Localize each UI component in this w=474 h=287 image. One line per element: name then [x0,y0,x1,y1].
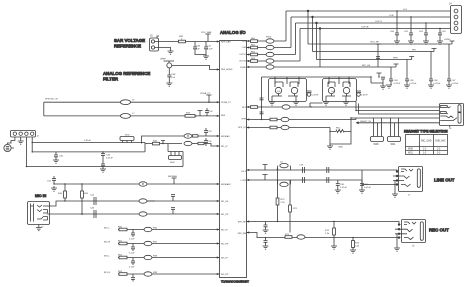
svg-text:IN3_LP: IN3_LP [221,258,229,260]
svg-text:C34: C34 [208,131,213,133]
svg-text:OUT1L: OUT1L [375,21,383,23]
wire REC OUT R [247,233,401,238]
capacitor C27 [193,42,206,55]
capacitor C68 [386,79,401,88]
svg-text:OUT1R: OUT1R [239,61,247,63]
svg-text:MIC_HS: MIC_HS [362,65,371,67]
input row IN3R [104,271,220,282]
wire nest y59.5 [317,57,415,80]
capacitor C70 [307,91,319,97]
microphone symbol MK1 [4,137,15,152]
connector J3 mic jack [28,202,50,229]
svg-text:VREF: VREF [160,59,166,61]
wire jack row3 [359,104,440,115]
resistor R45 vertical [81,184,89,215]
capacitor C60 [390,11,400,44]
ground [168,51,174,54]
jumper W08 [371,118,384,146]
varistor RV1 [330,128,351,149]
wire row VDDA_CT [44,101,220,103]
svg-text:2.2k: 2.2k [355,246,360,248]
svg-text:SPK_LP: SPK_LP [238,127,246,129]
svg-text:C35: C35 [208,141,213,143]
resistor R60 row41 [247,37,287,44]
svg-text:OUT1R: OUT1R [361,27,369,29]
wire SPK row [247,125,331,131]
power flag AVDD [201,31,212,42]
svg-text:FB6: FB6 [153,227,158,229]
svg-text:IN3_RP: IN3_RP [221,274,229,276]
capacitor C33 [205,108,213,116]
wire J5 pin1 to U1 REF pin [160,41,220,43]
svg-text:ANALOG REFERENCE: ANALOG REFERENCE [103,71,150,76]
svg-text:R44: R44 [58,193,63,195]
svg-text:IN2_RP: IN2_RP [221,244,229,246]
wire HSDET [357,121,440,124]
power flag REF [198,111,203,116]
power flag VDD_HP column [370,42,381,68]
ground [394,234,400,251]
ferrite bead L9 [278,180,291,187]
wire VGND row67 [247,65,321,69]
svg-text:C60: C60 [390,31,395,33]
svg-text:LINE OUT: LINE OUT [434,178,455,183]
svg-text:C62: C62 [419,31,424,33]
wire header pin2 gnd [20,137,22,141]
svg-text:W03: W03 [170,162,175,164]
svg-text:R72: R72 [325,230,330,232]
power flag MICBIAS [168,175,178,184]
wire top bundle 1 [286,11,451,41]
capacitor C30 [53,152,64,163]
wire R44 to tip row [64,200,66,202]
svg-text:IN2_R: IN2_R [104,242,111,244]
FET mute box U3 [323,77,357,105]
svg-text:R73: R73 [355,243,360,245]
capacitor C34 [204,128,212,136]
svg-text:MICBIAS: MICBIAS [168,175,178,178]
capacitor C71 [356,91,368,97]
svg-text:2.2k: 2.2k [325,233,330,235]
svg-text:W02: W02 [125,135,130,137]
wire column x261 [260,77,264,120]
input row IN2R [104,240,220,254]
wire SPKVDD row pair left stub [43,102,45,116]
svg-text:MIC_GND: MIC_GND [421,141,432,143]
wire varistor to rail [350,118,352,132]
resistor R44 vertical [58,184,66,201]
ferrite bead L8 [278,162,291,171]
svg-text:FB8: FB8 [153,255,158,257]
capacitor C42 series [90,195,96,206]
svg-text:R71: R71 [293,208,298,210]
connector J5 SAR ref [150,35,161,52]
svg-text:0.47uF: 0.47uF [84,140,91,142]
wire row144 to IN pin [204,144,220,147]
wire bias x371 [371,77,383,83]
svg-text:IN1_LM: IN1_LM [221,201,229,203]
headset table [406,135,448,155]
capacitor C83 [263,237,269,249]
capacitor C65 [404,79,417,88]
op-amp U1 TLV320 codec body [220,41,247,278]
svg-text:C47: C47 [207,46,212,48]
svg-text:TLV320ADC3101IRHBT: TLV320ADC3101IRHBT [221,280,249,284]
svg-text:LOR2: LOR2 [241,180,247,182]
connector J8 rec out jack [395,220,426,248]
svg-text:IN3_R: IN3_R [104,272,111,274]
svg-text:J7: J7 [408,195,411,197]
FET mute box U2 [269,77,307,105]
svg-text:MICBIAS: MICBIAS [221,135,230,138]
resistor R61 row47.5 [247,44,292,49]
svg-text:LOR: LOR [242,47,247,49]
svg-text:1uF: 1uF [196,48,200,50]
svg-text:0.47uF: 0.47uF [361,95,368,97]
connector J2 4-pin header [11,131,40,138]
svg-text:C36: C36 [106,155,111,157]
svg-text:HPR: HPR [393,58,398,60]
wire long y77 [262,76,372,78]
ground [327,144,333,149]
svg-text:0.47uF: 0.47uF [434,83,441,85]
svg-text:SPKVDD_IN: SPKVDD_IN [45,99,58,101]
ferrite bead L7 [121,113,136,118]
svg-text:VGND: VGND [240,67,247,69]
svg-text:IN2_LP: IN2_LP [221,230,229,232]
capacitor C82s series [303,177,305,183]
jumper W03 [169,152,182,165]
svg-text:L7: L7 [132,113,135,115]
svg-text:W08: W08 [408,149,413,151]
capacitor C36 stack [101,152,113,167]
svg-text:IN2_L: IN2_L [104,228,111,230]
wire nest y51.5 [313,49,437,80]
svg-text:RV1: RV1 [336,128,341,130]
wire header pin4 loop A [32,137,145,152]
wire jack row4 [351,117,440,119]
svg-text:FB7: FB7 [153,241,158,243]
svg-text:L6: L6 [132,100,135,102]
svg-text:J8: J8 [412,246,415,248]
svg-text:J2: J2 [37,136,40,138]
capacitor C81 [359,170,371,193]
svg-text:SAR VOLTAGE: SAR VOLTAGE [114,38,145,43]
resistor R71 [285,234,305,239]
jumper W01 [388,118,401,146]
wire top bundle 2 [291,17,451,48]
svg-text:R70: R70 [281,199,286,201]
resistor R33 [185,113,195,118]
svg-text:MIC IN: MIC IN [35,194,47,198]
svg-text:VGND: VGND [444,39,451,41]
wire R40 row [145,143,182,145]
wire jack row2 [356,102,440,111]
svg-text:C80: C80 [340,184,345,186]
capacitor C80 [335,180,348,193]
ferrite bead L6 [121,100,136,105]
svg-text:0.1uF: 0.1uF [129,239,135,241]
svg-text:0.1uF: 0.1uF [129,267,135,269]
svg-text:REF: REF [221,115,226,117]
svg-text:MICBIAS2: MICBIAS2 [221,183,232,186]
ground [100,167,106,173]
svg-text:C42: C42 [90,195,95,197]
U1 right pin labels [237,41,246,235]
wire loop B [32,143,145,152]
resistor R70 divider [276,170,298,233]
svg-text:1uF: 1uF [171,77,175,79]
svg-text:LOL2: LOL2 [241,171,247,173]
wire top bundle 3 [296,23,451,55]
svg-text:C65: C65 [410,80,415,82]
wire REC OUT L [247,222,401,225]
resistor R63 row61 [247,58,301,63]
wire micbias rail [54,183,220,185]
svg-text:OUT1L: OUT1L [239,54,247,56]
wire riser x316.5 [316,23,318,60]
wire LINE OUT L [247,170,399,172]
capacitor C82 [263,222,269,234]
svg-text:C78: C78 [299,165,304,167]
svg-text:VDDA_CT: VDDA_CT [221,101,231,104]
svg-text:REF_AGND: REF_AGND [221,68,233,71]
svg-text:0.47uF: 0.47uF [106,158,113,160]
svg-text:IN3_L: IN3_L [104,256,111,258]
resistor R72 vertical [325,222,337,250]
input row IN3L [104,254,220,268]
ferrite bead FB5 [139,212,147,216]
wire HPR row [247,117,357,121]
input row IN2L [104,226,220,240]
resistor R73 vertical [350,238,360,254]
svg-text:SPK_RM: SPK_RM [237,233,246,235]
wire nest y67b [320,64,399,79]
capacitor C72 [380,77,386,89]
svg-text:VDD_HP: VDD_HP [370,42,379,44]
capacitor C63 [437,29,446,45]
svg-text:0.47uF: 0.47uF [410,83,417,85]
svg-text:ANALOG I/O: ANALOG I/O [220,30,246,35]
jumper W02 [120,135,134,143]
svg-text:W01: W01 [391,143,397,146]
headset jack J6 [440,104,464,131]
svg-text:VDD_SAR: VDD_SAR [201,31,212,34]
wire riser x320 [319,29,321,68]
power flag VCM1 [263,165,268,171]
ground [36,225,42,231]
wire row REF [44,115,220,117]
svg-text:R45: R45 [84,193,89,195]
svg-text:0.47uF: 0.47uF [394,83,401,85]
wire HPL row [247,103,323,109]
svg-text:VDDA_CT: VDDA_CT [200,92,211,95]
capacitor C41 mic bias filter [47,176,56,184]
svg-text:C33: C33 [209,111,214,113]
junction [312,16,314,18]
svg-text:0.47uF: 0.47uF [312,95,319,97]
wire nest y44 [308,43,452,45]
svg-text:REFERENCE: REFERENCE [114,44,141,49]
capacitor C66 [428,79,441,88]
wire riser x312.5 [312,17,314,52]
svg-text:0.47uF: 0.47uF [364,187,371,189]
resistor R30 [179,36,186,43]
wire drop x449 [448,44,450,79]
svg-text:REC OUT: REC OUT [429,228,449,233]
svg-text:HSDET_IN: HSDET_IN [360,121,371,123]
svg-text:GND: GND [338,147,343,149]
svg-text:J5: J5 [150,35,153,38]
junction [316,22,318,24]
capacitor C43 series [90,208,96,219]
capacitor C62 [419,23,429,44]
svg-text:2.2k: 2.2k [281,202,286,204]
capacitor C37 flag [161,141,165,144]
wire W03 rail [168,144,183,167]
capacitor C31 [167,68,176,83]
pin arrows into U1 [217,40,249,275]
capacitor C45 [171,208,175,214]
svg-text:HPR: HPR [242,119,247,121]
svg-text:C63: C63 [442,31,447,33]
wire jack row1 [311,106,440,108]
wire filter output to U1 pin [172,65,220,69]
svg-text:FB10: FB10 [266,37,272,39]
connector J7 line out jack [393,167,423,197]
wire riser x308 [307,11,309,44]
power flag VGND [444,39,455,44]
svg-text:FILTER: FILTER [103,77,119,82]
capacitor C61 [404,17,414,44]
svg-text:W01: W01 [408,153,413,155]
power flag HP2 [377,73,382,77]
resistor R40 [153,141,160,145]
capacitor C28 [204,42,213,57]
svg-text:J6: J6 [449,128,452,130]
junction [307,10,309,12]
wire header pin3 row [26,137,183,167]
wire row MICBIAS1 [142,136,220,144]
capacitor C79 series [327,167,329,173]
wire top bundle 4 [300,29,451,62]
svg-text:C46: C46 [196,46,201,48]
power flag VCM2 [263,175,268,181]
svg-text:FB9: FB9 [153,272,158,274]
top right connector J4 [449,3,462,34]
wire J5 pin2 drop [160,48,171,52]
svg-text:C66: C66 [434,80,439,82]
svg-text:IN1_LP: IN1_LP [221,146,229,148]
svg-text:LOR: LOR [389,15,394,17]
svg-text:J4: J4 [449,3,452,6]
resistor R62 row54.5 [247,51,296,56]
transistor Q9 analog ref filter [160,59,174,68]
svg-text:C41: C41 [47,181,52,183]
svg-text:0.47uF: 0.47uF [340,187,347,189]
svg-text:REF_SAR: REF_SAR [221,41,231,44]
ground [392,181,398,198]
svg-text:C68: C68 [394,80,399,82]
ferrite bead FB1 [184,141,204,145]
power flag VDDA_CT [200,92,212,102]
wire mic ring row [47,213,220,215]
ferrite bead FB3 [139,182,147,186]
svg-text:GND_MIC: GND_MIC [435,141,446,143]
svg-text:C30: C30 [59,156,64,158]
svg-text:0.1uF: 0.1uF [207,48,213,50]
svg-text:C67: C67 [452,80,457,82]
svg-text:0.1uF: 0.1uF [129,253,135,255]
svg-text:Q5: Q5 [277,91,281,93]
svg-text:W08: W08 [374,143,380,146]
ground [18,141,24,144]
capacitor C67 [446,79,459,88]
svg-text:HEADSET TYPE SELECTION: HEADSET TYPE SELECTION [404,129,448,133]
wire LINE OUT R [247,180,399,185]
ground [203,56,209,59]
svg-text:0.47uF: 0.47uF [452,83,459,85]
ground [51,186,57,191]
capacitor C44 [171,195,175,201]
U1 left pin labels [221,41,233,277]
svg-text:C48: C48 [171,74,176,76]
svg-text:C43: C43 [90,208,95,210]
capacitor C78 series [299,165,305,174]
svg-text:IN1_RP: IN1_RP [221,214,229,216]
wire mic tip row [47,201,220,206]
capacitor C35 [204,138,212,146]
ferrite bead FB4 [139,199,155,203]
svg-text:SPK_RP: SPK_RP [238,222,247,224]
ferrite bead FB11 [184,134,198,138]
svg-text:C61: C61 [404,31,409,33]
capacitor C83s series [327,177,329,183]
junction [319,28,321,30]
ground [166,83,172,86]
